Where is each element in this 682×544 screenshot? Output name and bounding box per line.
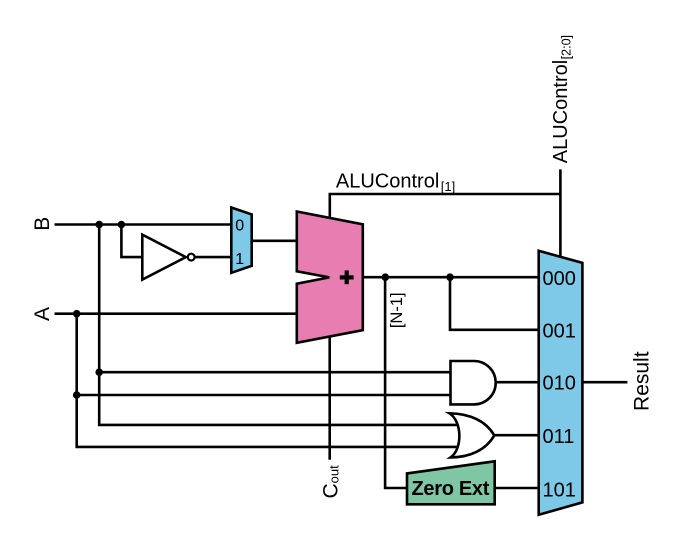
junction B1 [95,221,103,229]
wire AND output to mux input 010 [496,381,539,384]
wire adder output [363,276,539,279]
or gate G2 [449,413,494,457]
svg-text:Zero Ext: Zero Ext [412,478,490,500]
junction A1 [73,310,81,318]
svg-text:101: 101 [543,479,576,501]
junction B3 [95,368,103,376]
svg-text:000: 000 [543,268,576,290]
svg-text:ALUControl[1]: ALUControl[1] [336,171,455,195]
zero extend unit [407,461,495,504]
mux M1 2:1 [231,208,251,273]
wire B branch to AND and OR [99,225,462,425]
junction S2 [446,273,454,281]
wire to inverter input [121,225,142,258]
svg-text:1: 1 [235,251,244,268]
wire B to AND input [99,371,451,374]
adder U2 [297,212,363,343]
wire mux M1 output to adder [252,240,297,243]
mux M2 result multiplexer [539,251,583,515]
svg-text:Result: Result [631,351,654,411]
svg-text:[N-1]: [N-1] [388,292,406,328]
junction S1 [382,273,390,281]
junction A2 [73,391,81,399]
svg-text:001: 001 [543,321,576,343]
wire select line to mux M2 [559,169,562,257]
wire A branch to AND and OR [77,314,462,447]
svg-text:011: 011 [543,426,575,448]
svg-text:0: 0 [235,217,244,234]
svg-text:A: A [31,307,54,321]
inverter U1 [142,235,194,280]
and gate G1 [451,361,496,404]
wire adder output to mux input 001 [450,277,539,330]
wire OR output to mux input 011 [494,434,538,437]
wire A input [55,312,297,315]
wire B input [55,223,232,226]
svg-text:B: B [31,217,54,231]
wire ALUControl[1] from adder top to select line [330,194,561,218]
wire Result output [582,381,627,384]
junction B2 [118,221,126,229]
wire Cout from adder bottom [328,336,331,459]
wire sign bit down to zero extend [385,277,407,488]
wire inverter output to mux M1 [196,256,232,259]
wire A to AND input [77,394,452,397]
svg-text:010: 010 [543,373,576,395]
wire zero extend output to mux input 101 [495,487,539,490]
